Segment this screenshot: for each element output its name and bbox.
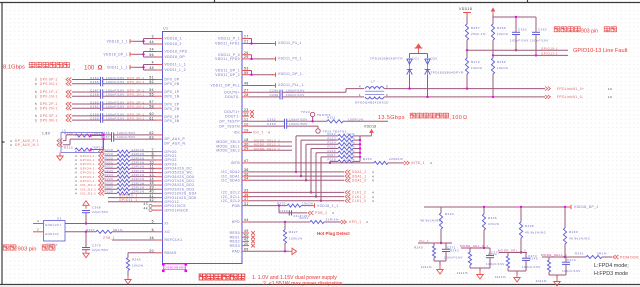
wire <box>324 221 341 223</box>
wire RBIAS <box>128 252 156 254</box>
svg-text:R210: R210 <box>64 146 73 150</box>
svg-text:VDD18: VDD18 <box>459 7 472 11</box>
svg-text:10k1%: 10k1% <box>132 264 143 268</box>
wire <box>156 184 163 186</box>
wire <box>156 172 163 174</box>
node FPDLinkN1_0- port <box>545 95 550 99</box>
no-connect pin 43 <box>149 204 152 207</box>
wire <box>156 64 163 66</box>
svg-text:903 pin: 903 pin <box>581 28 598 34</box>
svg-text:REFCLK1: REFCLK1 <box>165 238 183 242</box>
wire <box>242 58 249 60</box>
svg-text:C369: C369 <box>279 209 288 213</box>
svg-text:PDB_1: PDB_1 <box>315 211 327 215</box>
svg-text:44: 44 <box>149 40 154 44</box>
svg-text:RES3: RES3 <box>230 244 240 248</box>
svg-text:34: 34 <box>244 177 249 181</box>
wire <box>301 139 338 141</box>
wire <box>301 205 312 207</box>
wire <box>249 145 292 147</box>
svg-text:U1: U1 <box>163 27 169 31</box>
wire <box>249 91 280 93</box>
svg-text:100nF/16V: 100nF/16V <box>510 39 529 43</box>
wire <box>156 180 163 182</box>
svg-text:59: 59 <box>244 71 249 75</box>
svg-text:10: 10 <box>608 95 612 99</box>
wire <box>105 184 118 186</box>
wire <box>440 229 442 243</box>
wire <box>549 274 566 276</box>
svg-text:2: 2 <box>386 93 388 97</box>
svg-text:22R/1%: 22R/1% <box>326 218 339 222</box>
wire <box>33 223 44 225</box>
wire <box>156 252 163 254</box>
svg-text:11: 11 <box>244 118 248 122</box>
wire <box>242 200 249 202</box>
wire <box>242 85 249 87</box>
svg-text:DP0-3N-1: DP0-3N-1 <box>40 118 58 122</box>
wire <box>242 205 249 207</box>
wire <box>388 162 404 164</box>
wire <box>249 38 252 40</box>
svg-text:DP_TESTP: DP_TESTP <box>220 120 241 124</box>
wire <box>542 256 586 258</box>
wire <box>507 253 509 257</box>
wire <box>156 103 163 105</box>
wire <box>156 119 163 121</box>
svg-text:Hot Plug Detect: Hot Plug Detect <box>317 231 350 236</box>
svg-text:C363: C363 <box>538 28 547 32</box>
wire <box>445 243 447 249</box>
ground <box>83 201 89 209</box>
svg-text:R241: R241 <box>575 252 584 256</box>
wire <box>330 160 338 162</box>
svg-text:42: 42 <box>149 198 154 202</box>
svg-text:17: 17 <box>244 35 249 39</box>
svg-text:27: 27 <box>244 89 249 93</box>
svg-text:PDB: PDB <box>232 204 240 208</box>
svg-text:DOUT0+: DOUT0+ <box>224 91 240 95</box>
wire <box>343 120 388 122</box>
wire <box>91 149 104 151</box>
svg-text:VDD11_DP_PLL: VDD11_DP_PLL <box>210 84 240 88</box>
wire <box>492 55 494 58</box>
wire <box>242 145 249 147</box>
wire XO + resistor R237 <box>65 231 96 233</box>
svg-text:DP0_3N: DP0_3N <box>165 119 180 123</box>
wire <box>156 159 163 161</box>
label thermal via note <box>199 274 206 280</box>
svg-text:10k1%: 10k1% <box>302 202 313 206</box>
wire <box>156 197 163 199</box>
wire <box>156 83 163 85</box>
svg-text:PDMODE_1: PDMODE_1 <box>620 255 640 259</box>
wire <box>105 192 118 194</box>
wire <box>72 103 101 105</box>
wire <box>525 253 527 259</box>
wire <box>315 153 317 197</box>
wire <box>316 152 338 154</box>
svg-text:1.8V: 1.8V <box>42 132 51 136</box>
wire <box>156 223 163 225</box>
svg-text:Ω: Ω <box>98 65 103 72</box>
wire <box>72 83 101 85</box>
wire <box>156 91 163 93</box>
wire <box>249 196 344 198</box>
svg-text:R231: R231 <box>300 216 309 220</box>
node IDx_1 tie <box>418 242 452 244</box>
wire <box>300 140 302 176</box>
resistor R270 <box>465 58 468 74</box>
wire rail <box>493 16 536 18</box>
wire <box>535 17 537 32</box>
wire <box>134 66 144 68</box>
wire <box>156 56 163 58</box>
wire <box>565 257 567 262</box>
ground <box>289 248 297 254</box>
resistor R244 <box>506 256 509 268</box>
node PDB_1 <box>308 211 313 215</box>
svg-text:MODE_SEL_0_1: MODE_SEL_0_1 <box>460 244 488 248</box>
svg-text:45: 45 <box>149 66 154 70</box>
wire <box>72 79 101 81</box>
wire <box>127 271 129 277</box>
svg-text:58: 58 <box>149 104 154 108</box>
wire <box>72 95 101 97</box>
svg-text:DP0-0N-1: DP0-0N-1 <box>40 82 58 86</box>
wire <box>353 160 360 162</box>
svg-text:100k1%: 100k1% <box>289 237 303 241</box>
ground <box>57 153 63 161</box>
wire <box>105 180 118 182</box>
wire <box>156 155 163 157</box>
wire <box>63 144 70 146</box>
svg-text:GPIO10-13 Line Fault: GPIO10-13 Line Fault <box>573 48 628 54</box>
svg-text:DP0_1N: DP0_1N <box>165 94 180 98</box>
svg-text:R227: R227 <box>289 230 298 234</box>
wire <box>156 231 163 233</box>
svg-text:TPD1E05B04DPYR: TPD1E05B04DPYR <box>431 71 464 75</box>
svg-text:10k1%: 10k1% <box>497 66 508 70</box>
svg-text:6: 6 <box>152 228 154 232</box>
wire <box>242 115 249 117</box>
wire REFCLK1 <box>112 239 156 241</box>
svg-text:4: 4 <box>75 192 77 196</box>
resistor R239 <box>564 207 566 228</box>
svg-text:X3: X3 <box>57 217 62 221</box>
wire <box>249 54 252 56</box>
wire <box>469 248 471 252</box>
wire <box>242 149 249 151</box>
svg-text:10: 10 <box>244 122 249 126</box>
svg-text:19: 19 <box>244 129 249 133</box>
svg-text:5: 5 <box>152 220 154 224</box>
wire <box>242 232 249 234</box>
wire DOUT0+ to port <box>384 88 545 90</box>
svg-text:DP_AUX_P: DP_AUX_P <box>165 137 186 141</box>
ground <box>477 271 483 279</box>
wire <box>156 69 163 71</box>
wire <box>242 191 249 193</box>
svg-text:DP_AUX_N: DP_AUX_N <box>165 141 186 145</box>
wire <box>466 17 468 25</box>
wire <box>156 134 163 136</box>
wire <box>108 201 156 203</box>
wire <box>105 159 118 161</box>
resistor R267 <box>465 24 468 40</box>
svg-text:4: 4 <box>372 199 374 203</box>
svg-text:0R1%: 0R1% <box>597 252 607 256</box>
svg-text:2: 2 <box>37 227 39 231</box>
svg-text:RBIAS: RBIAS <box>165 251 177 255</box>
wire <box>242 236 249 238</box>
wire <box>156 201 163 203</box>
svg-text:49.9k1%/NC: 49.9k1%/NC <box>569 237 591 241</box>
svg-text:GNDC2C1: GNDC2C1 <box>45 223 62 227</box>
svg-text:65: 65 <box>244 248 249 252</box>
svg-text:1: 1 <box>359 93 361 97</box>
wire <box>156 79 163 81</box>
svg-text:44: 44 <box>144 206 148 210</box>
wire <box>242 111 249 113</box>
wire <box>306 143 338 145</box>
svg-text:R244: R244 <box>488 253 497 257</box>
wire <box>105 188 118 190</box>
wire <box>242 96 249 98</box>
svg-text:VDD18_1_1: VDD18_1_1 <box>107 40 128 44</box>
svg-text:4: 4 <box>37 219 39 223</box>
wire <box>466 50 468 58</box>
resistor R227 pull-down <box>284 222 286 230</box>
svg-text:R240: R240 <box>414 246 423 250</box>
svg-text:3: 3 <box>386 85 388 89</box>
wire <box>489 248 491 256</box>
wire <box>602 256 612 258</box>
svg-text:61: 61 <box>149 116 154 120</box>
svg-text:VDD18_1_1: VDD18_1_1 <box>317 204 338 208</box>
svg-text:VDD18_DP: VDD18_DP <box>165 55 186 59</box>
svg-text:GPIO10-1: GPIO10-1 <box>541 46 558 50</box>
label cap-near-pin note <box>554 26 560 31</box>
svg-text:Ω: Ω <box>463 115 467 121</box>
wire <box>564 244 566 257</box>
svg-text:48.9k1%/NC: 48.9k1%/NC <box>420 219 442 223</box>
svg-text:VDD11_P1_1: VDD11_P1_1 <box>278 41 302 45</box>
svg-text:5: 5 <box>35 106 37 110</box>
svg-text:R238: R238 <box>525 224 534 228</box>
crystal X3 27MHz <box>44 221 66 242</box>
svg-text:CLK1_0: CLK1_0 <box>352 199 366 203</box>
op-amp U1 DS90UB983 serializer body <box>163 32 243 264</box>
svg-text:R232: R232 <box>277 202 286 206</box>
svg-text:903 pin: 903 pin <box>18 247 37 253</box>
svg-text:29: 29 <box>244 55 249 59</box>
svg-text:TP24: TP24 <box>301 110 310 114</box>
wire <box>33 231 44 233</box>
node GPIO10-1 wire <box>467 49 568 51</box>
wire <box>105 167 118 169</box>
wire <box>63 140 66 142</box>
wire <box>515 17 517 32</box>
wire <box>156 138 163 140</box>
svg-text:MODE_SEL_1_2: MODE_SEL_1_2 <box>498 249 526 253</box>
svg-text:13.5Gbps: 13.5Gbps <box>378 115 405 121</box>
wire <box>305 144 307 180</box>
wire <box>242 43 249 45</box>
wire XI <box>65 223 156 225</box>
svg-text:R270: R270 <box>471 60 480 64</box>
svg-text:VDD11_L_1: VDD11_L_1 <box>107 66 128 70</box>
U1 left pin names <box>165 37 197 255</box>
svg-text:100nF/16V: 100nF/16V <box>522 265 541 269</box>
wire <box>499 252 527 254</box>
svg-text:4: 4 <box>372 179 374 183</box>
wire <box>156 192 163 194</box>
U1 part number (selected) <box>164 264 186 270</box>
wire <box>91 135 104 137</box>
svg-text:HPD_1: HPD_1 <box>349 220 362 224</box>
svg-text:20: 20 <box>244 242 249 246</box>
wire <box>427 75 429 97</box>
resistor R240b <box>432 246 435 258</box>
svg-text:4: 4 <box>10 143 12 147</box>
wire <box>461 247 490 249</box>
svg-text:37: 37 <box>244 197 249 201</box>
power arrow <box>492 12 494 15</box>
resistor R238 <box>520 207 522 222</box>
wire <box>320 157 322 201</box>
svg-text:22pF/50V: 22pF/50V <box>92 248 109 252</box>
wire <box>242 91 249 93</box>
svg-text:R243: R243 <box>450 249 459 253</box>
wire <box>466 40 468 50</box>
svg-text:4: 4 <box>366 220 368 224</box>
wire <box>311 148 338 150</box>
svg-text:22: 22 <box>244 112 249 116</box>
wire <box>105 172 118 174</box>
svg-text:VDD18: VDD18 <box>364 125 377 129</box>
svg-text:48: 48 <box>244 82 249 86</box>
svg-text:INTB_1: INTB_1 <box>411 161 425 165</box>
svg-text:47k1%: 47k1% <box>488 222 499 226</box>
svg-text:IDx_1: IDx_1 <box>253 131 264 135</box>
svg-text:29: 29 <box>244 147 249 151</box>
wire <box>520 238 522 253</box>
wire <box>321 156 338 158</box>
wire <box>156 239 163 241</box>
diode D20 TVS <box>425 59 431 75</box>
svg-text:10: 10 <box>608 87 612 91</box>
svg-text:2. <1.551W max power dissipati: 2. <1.551W max power dissipation <box>263 281 343 287</box>
ground <box>554 278 560 286</box>
svg-text:R236: R236 <box>488 216 497 220</box>
svg-text:MODE_SEL2: MODE_SEL2 <box>216 149 240 153</box>
wire <box>72 115 101 117</box>
svg-text:56: 56 <box>149 53 154 57</box>
svg-text:INTB: INTB <box>231 161 241 165</box>
wire <box>483 230 485 248</box>
svg-text:TPD1E05B04DPYR: TPD1E05B04DPYR <box>370 57 403 61</box>
resistor R243 <box>468 252 471 265</box>
wire <box>508 270 526 272</box>
wire <box>156 176 163 178</box>
svg-text:31: 31 <box>244 202 249 206</box>
svg-text:I2S_D2-1: I2S_D2-1 <box>80 192 96 196</box>
resistor R266 <box>491 24 494 40</box>
svg-text:FPDLinkN1_0+: FPDLinkN1_0+ <box>557 87 584 91</box>
svg-text:0R1%: 0R1% <box>113 228 123 232</box>
svg-text:IDx_1: IDx_1 <box>419 239 429 243</box>
wire <box>72 119 101 121</box>
wire <box>156 115 163 117</box>
wire <box>156 167 163 169</box>
svg-text:VDD11_DP_2: VDD11_DP_2 <box>215 73 240 77</box>
wire <box>105 151 118 153</box>
svg-text:C370: C370 <box>92 244 101 248</box>
wire <box>242 240 249 242</box>
svg-text:MODE_SEL1_1: MODE_SEL1_1 <box>541 253 567 257</box>
svg-text:GND1C2: GND1C2 <box>45 232 59 236</box>
svg-text:8.1Gbps: 8.1Gbps <box>3 65 25 71</box>
wire <box>249 70 252 72</box>
ground <box>125 276 131 284</box>
wire <box>249 85 273 87</box>
svg-text:63: 63 <box>149 135 154 139</box>
no-connect pin 44 <box>149 209 152 212</box>
svg-text:GPIO11_1: GPIO11_1 <box>119 198 137 202</box>
svg-text:24: 24 <box>149 48 154 52</box>
svg-text:XI: XI <box>165 222 169 226</box>
wire <box>156 188 163 190</box>
resistor R269 <box>491 58 494 74</box>
wire <box>242 221 249 223</box>
svg-text:100nF/50V: 100nF/50V <box>117 135 136 139</box>
svg-text:28: 28 <box>244 93 249 97</box>
wire <box>548 257 550 260</box>
svg-text:VDD11_L_2: VDD11_L_2 <box>165 68 187 72</box>
wire <box>156 38 163 40</box>
svg-text:L7: L7 <box>371 80 375 84</box>
svg-text:D21: D21 <box>413 57 420 61</box>
svg-text:4: 4 <box>359 85 361 89</box>
svg-text:R269: R269 <box>497 60 506 64</box>
svg-text:100nF/16V: 100nF/16V <box>562 269 581 273</box>
svg-text:100nF/16V: 100nF/16V <box>444 256 463 260</box>
wire <box>295 136 297 172</box>
resistor R245 <box>547 260 550 272</box>
svg-text:20: 20 <box>149 249 154 253</box>
svg-text:R233: R233 <box>363 157 372 161</box>
wire <box>242 54 249 56</box>
ground <box>514 274 520 282</box>
wire <box>85 213 87 224</box>
svg-text:R245: R245 <box>529 257 538 261</box>
svg-text:4: 4 <box>332 211 334 215</box>
svg-text:D20: D20 <box>431 57 438 61</box>
svg-text:IDx: IDx <box>234 131 240 135</box>
node PDMODE_1 <box>613 255 618 259</box>
wire <box>242 250 249 252</box>
wire <box>434 260 446 262</box>
svg-text:VDD11_P0_1: VDD11_P0_1 <box>278 56 302 60</box>
svg-text:R211: R211 <box>327 115 336 119</box>
svg-text:100nF/16V: 100nF/16V <box>486 262 505 266</box>
svg-text:VDD11_P_1: VDD11_P_1 <box>218 37 240 41</box>
wire <box>249 120 285 122</box>
svg-text:52: 52 <box>149 80 154 84</box>
svg-text:5: 5 <box>35 94 37 98</box>
svg-text:49.9k1%/NC: 49.9k1%/NC <box>525 231 547 235</box>
